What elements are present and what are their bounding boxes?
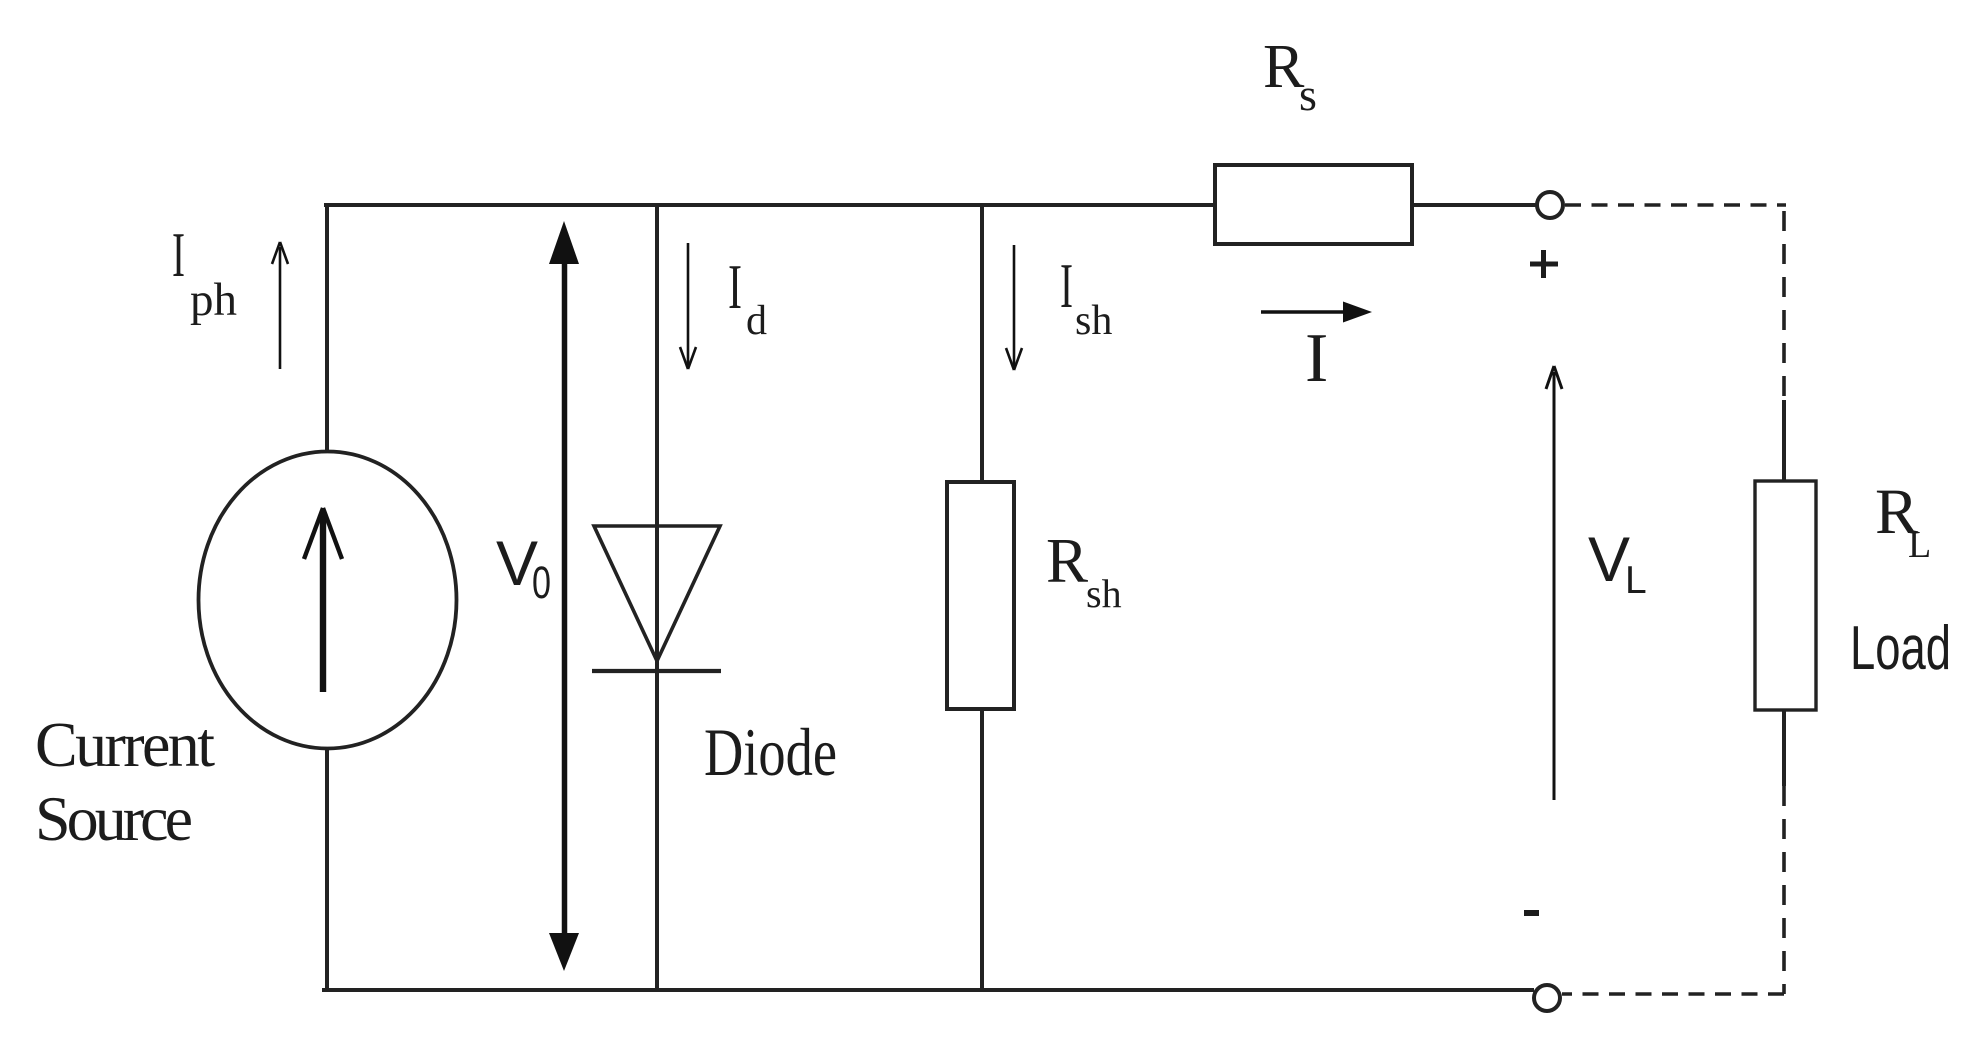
svg-text:I: I — [1060, 250, 1073, 321]
svg-text:s: s — [1299, 69, 1317, 120]
svg-text:0: 0 — [532, 557, 551, 608]
svg-text:sh: sh — [1075, 298, 1112, 344]
svg-text:Source: Source — [35, 783, 193, 854]
svg-text:ph: ph — [190, 274, 237, 326]
svg-text:R: R — [1046, 526, 1088, 596]
svg-text:L: L — [1908, 524, 1931, 566]
svg-text:V: V — [1588, 525, 1630, 595]
svg-text:L: L — [1625, 559, 1647, 602]
svg-text:Load: Load — [1850, 614, 1951, 683]
svg-text:sh: sh — [1086, 571, 1122, 616]
svg-text:I: I — [172, 219, 185, 290]
svg-text:d: d — [746, 298, 767, 344]
svg-text:Current: Current — [35, 709, 215, 780]
svg-text:Diode: Diode — [704, 714, 837, 790]
svg-text:I: I — [728, 251, 742, 322]
svg-text:I: I — [1305, 320, 1328, 397]
